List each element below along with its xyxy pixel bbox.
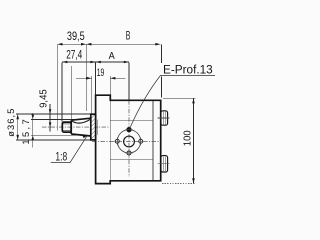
svg-text:9,45: 9,45 [38,89,49,108]
svg-text:39,5: 39,5 [67,31,85,43]
svg-text:1:8: 1:8 [55,152,67,164]
svg-text:B: B [126,31,131,43]
svg-text:27,4: 27,4 [66,50,83,62]
svg-text:E-Prof.13: E-Prof.13 [163,64,213,76]
svg-text:ø36,5: ø36,5 [6,108,16,137]
svg-text:100: 100 [182,130,193,146]
svg-text:19: 19 [97,67,105,79]
svg-text:A: A [109,51,115,62]
svg-text:15,7: 15,7 [21,117,31,145]
